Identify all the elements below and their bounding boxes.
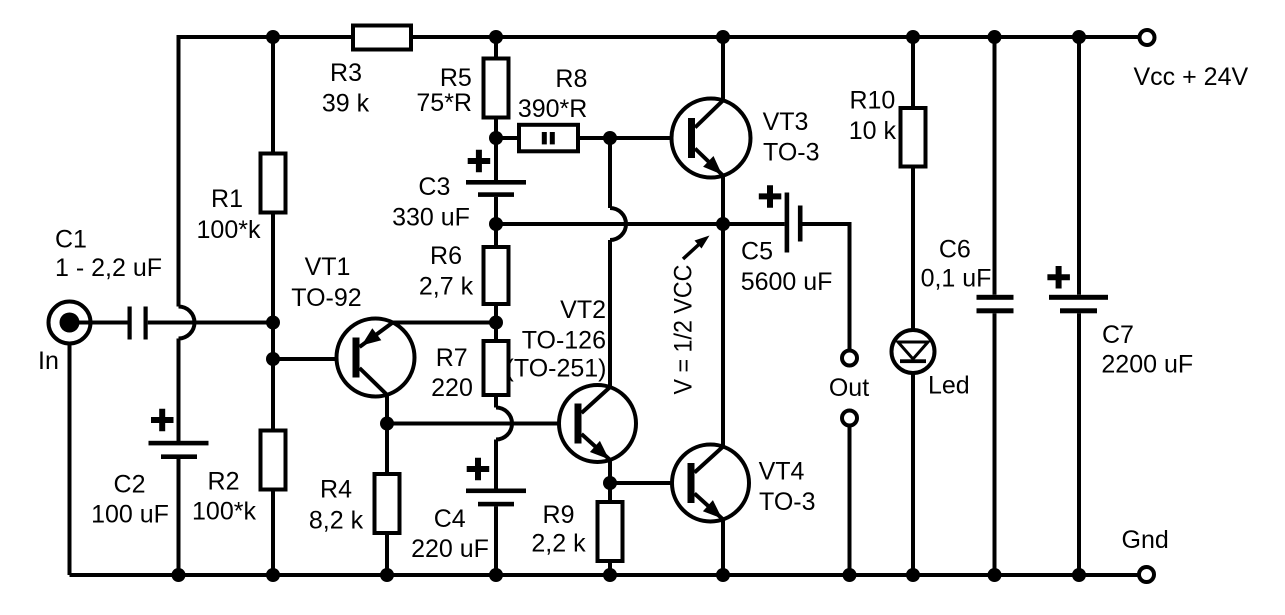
- svg-text:VT4: VT4: [759, 458, 805, 486]
- node: junction R1 top on filtered rail: [266, 30, 280, 44]
- label V = 1/2 VCC (rotated): [670, 265, 698, 395]
- svg-text:1 - 2,2 uF: 1 - 2,2 uF: [55, 254, 162, 282]
- node: Out return ground junction: [843, 568, 857, 582]
- svg-text:8,2 k: 8,2 k: [309, 507, 364, 535]
- node: input node junction: [266, 316, 280, 330]
- wire: R10/LED column: [911, 37, 915, 575]
- svg-text:R7: R7: [436, 344, 468, 372]
- label VT2 TO-126 (TO-251): [506, 296, 607, 383]
- node: VT1 base junction: [266, 352, 280, 366]
- capacitor C7: [1047, 266, 1108, 313]
- wire: VT2 collector column with hop over output wire: [608, 138, 612, 387]
- wire: middle column (R5/C3/R6/R7/C4): [494, 37, 498, 575]
- node: C7 ground junction: [1072, 568, 1086, 582]
- node: C4 ground junction: [489, 568, 503, 582]
- svg-text:2200 uF: 2200 uF: [1101, 351, 1193, 379]
- LED indicator: [892, 330, 935, 373]
- svg-text:VT3: VT3: [763, 108, 809, 136]
- svg-text:2,2 k: 2,2 k: [531, 530, 586, 558]
- svg-text:330 uF: 330 uF: [392, 203, 470, 231]
- svg-text:39 k: 39 k: [322, 90, 370, 118]
- wire: C7 column: [1077, 37, 1081, 575]
- wire: jack to C1: [70, 321, 128, 325]
- svg-text:TO-3: TO-3: [763, 139, 820, 167]
- svg-text:R2: R2: [208, 468, 240, 496]
- capacitor C5: [759, 185, 803, 252]
- node: R4 ground junction: [380, 568, 394, 582]
- node: R2 ground junction: [266, 568, 280, 582]
- svg-text:R10: R10: [849, 87, 895, 115]
- transistor VT4 (NPN): [672, 445, 749, 576]
- node: junction R5 top: [489, 30, 503, 44]
- label Out: [829, 374, 869, 402]
- wire: output node to C5: [723, 222, 785, 226]
- wire: VT2 emitter to VT4 base: [610, 481, 688, 485]
- capacitor C1: [128, 307, 148, 340]
- node: junction R10 top: [906, 30, 920, 44]
- node: VT2 emitter junction: [603, 476, 617, 490]
- capacitor C2: [149, 409, 209, 459]
- wire: VT1 collector node to VT2 base: [387, 422, 575, 426]
- svg-text:100*k: 100*k: [197, 216, 261, 244]
- wire: top rail filtered segment (left of R3): [179, 35, 354, 307]
- annotation arrow to output node: [683, 236, 710, 260]
- svg-text:R3: R3: [330, 59, 362, 87]
- svg-text:In: In: [38, 347, 59, 375]
- wire hop: left column over input wire: [179, 307, 195, 339]
- label R7 value: [431, 344, 473, 402]
- terminal Vcc: [1140, 30, 1155, 45]
- svg-text:R4: R4: [320, 476, 352, 504]
- svg-text:0,1 uF: 0,1 uF: [921, 265, 992, 293]
- svg-text:C7: C7: [1102, 321, 1134, 349]
- wire: Out return terminal to ground rail: [848, 426, 852, 576]
- wire hop: middle column over VT2 base wire: [496, 408, 512, 440]
- node: junction C6 top: [988, 30, 1002, 44]
- resistor R4: [375, 474, 400, 533]
- svg-text:5600 uF: 5600 uF: [741, 268, 833, 296]
- wire: R8 row: [496, 136, 688, 140]
- svg-text:10 k: 10 k: [849, 117, 897, 145]
- label C2 value: [91, 471, 169, 529]
- svg-text:C6: C6: [939, 235, 971, 263]
- resistor R6: [484, 247, 509, 304]
- node: VT4 emitter ground junction: [716, 568, 730, 582]
- svg-text:TO-92: TO-92: [291, 284, 361, 312]
- svg-text:220 uF: 220 uF: [411, 535, 489, 563]
- wire: left column from hop down to C2: [177, 339, 181, 442]
- node: R6/R7/VT1 emitter junction: [489, 316, 503, 330]
- terminal Gnd: [1139, 567, 1154, 582]
- label C7 value: [1101, 321, 1193, 379]
- wire: C5 to Out terminal: [803, 222, 850, 351]
- svg-text:C3: C3: [418, 173, 450, 201]
- wire: base wire to VT1: [273, 357, 353, 361]
- node: VT1 collector / R4 junction: [380, 417, 394, 431]
- wire: top rail main (Vcc): [411, 35, 1140, 39]
- transistor VT2 (NPN): [559, 385, 636, 483]
- svg-text:390*R: 390*R: [518, 95, 588, 123]
- label R3 value: [322, 59, 370, 118]
- label C3 value: [392, 173, 470, 232]
- label Vcc + 24V: [1134, 63, 1249, 91]
- svg-text:R1: R1: [211, 185, 243, 213]
- wire hop: VT2 collector over output wire: [610, 208, 626, 240]
- capacitor C6: [977, 295, 1014, 314]
- connector In jack: [49, 302, 91, 344]
- wire: ground rail: [70, 573, 1140, 577]
- resistor R3: [353, 26, 411, 50]
- terminal Out (hot): [842, 351, 857, 366]
- wire: C6 column: [993, 37, 997, 575]
- node: C2 ground junction: [172, 568, 186, 582]
- svg-text:R6: R6: [430, 242, 462, 270]
- svg-text:R8: R8: [555, 65, 587, 93]
- transistor VT3 (NPN): [672, 37, 751, 224]
- label VT1 TO-92: [291, 253, 361, 312]
- resistor R1: [261, 154, 286, 213]
- transistor VT1 (PNP): [337, 319, 415, 424]
- svg-text:Led: Led: [928, 372, 970, 400]
- svg-text:Gnd: Gnd: [1122, 526, 1169, 554]
- resistor R5: [484, 59, 509, 118]
- wire: output row C3 node to VT3 emitter node: [496, 222, 723, 226]
- resistor R8 (fusible): [519, 125, 578, 152]
- label R2 value: [192, 468, 256, 526]
- node: LED ground junction: [906, 568, 920, 582]
- svg-text:Out: Out: [829, 374, 869, 402]
- wire: output node down to VT4 collector: [721, 224, 725, 447]
- label R1 value: [197, 185, 261, 244]
- svg-text:R5: R5: [440, 64, 472, 92]
- svg-text:100*k: 100*k: [192, 498, 256, 526]
- node: R9 ground junction: [603, 568, 617, 582]
- resistor R9: [598, 502, 623, 561]
- wire: C2 to ground rail: [177, 459, 181, 575]
- label VT4 TO-3: [759, 458, 816, 517]
- svg-text:V = 1/2 VCC: V = 1/2 VCC: [670, 265, 698, 395]
- node: C6 ground junction: [988, 568, 1002, 582]
- resistor R7: [484, 341, 509, 395]
- label C5 value: [741, 238, 833, 297]
- terminal Out (return): [842, 411, 857, 426]
- node: R5/R8/C3 junction: [489, 131, 503, 145]
- wire: down to R4: [385, 424, 389, 576]
- resistor R2: [261, 431, 286, 490]
- label C6 value: [921, 235, 992, 292]
- capacitor C3: [466, 150, 526, 197]
- node: junction VT3 collector top: [716, 30, 730, 44]
- svg-text:100 uF: 100 uF: [91, 501, 169, 529]
- svg-text:220: 220: [431, 374, 473, 402]
- node: R8/VT3 base/VT2 collector junction: [603, 131, 617, 145]
- resistor R10: [901, 108, 926, 167]
- svg-text:C1: C1: [55, 226, 87, 254]
- label VT3 TO-3: [763, 108, 820, 167]
- capacitor C4: [466, 458, 526, 507]
- label Led: [928, 372, 970, 400]
- svg-text:VT2: VT2: [560, 296, 606, 324]
- svg-text:TO-126: TO-126: [522, 327, 606, 355]
- label In: [38, 347, 59, 375]
- svg-text:C4: C4: [434, 505, 466, 533]
- label R10 value: [849, 87, 897, 146]
- svg-text:R9: R9: [543, 501, 575, 529]
- node: junction C7 top: [1072, 30, 1086, 44]
- label Gnd: [1122, 526, 1169, 554]
- svg-text:C5: C5: [741, 238, 773, 266]
- label R8 value: [518, 65, 588, 123]
- wire: R1/R2 divider column: [271, 37, 275, 575]
- label R4 value: [309, 476, 364, 535]
- wire: down to R9: [608, 483, 612, 575]
- label R9 value: [531, 501, 586, 558]
- svg-text:TO-3: TO-3: [759, 488, 816, 516]
- wire: VT1 emitter to R6/R7 node: [393, 321, 496, 325]
- svg-text:Vcc + 24V: Vcc + 24V: [1134, 63, 1249, 91]
- label R5 value: [416, 64, 472, 117]
- svg-text:2,7 k: 2,7 k: [419, 273, 474, 301]
- node: C3 bottom / output wire junction: [489, 217, 503, 231]
- label R6 value: [419, 242, 474, 301]
- wire: jack down to ground rail: [68, 344, 72, 576]
- node: output node (VT3 emitter / VT4 collector): [716, 217, 730, 231]
- svg-text:C2: C2: [114, 471, 146, 499]
- svg-text:VT1: VT1: [305, 253, 351, 281]
- label C1 value: [55, 226, 162, 283]
- svg-text:(TO-251): (TO-251): [506, 355, 607, 383]
- svg-text:75*R: 75*R: [416, 89, 472, 117]
- label C4 value: [411, 505, 489, 563]
- wire: C1 to input node (passes under hop): [148, 321, 273, 325]
